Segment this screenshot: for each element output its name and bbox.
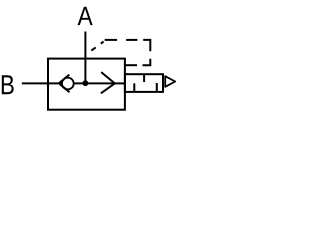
pilot dashed diagonal dash 2 (101, 42, 104, 44)
port label B (2, 75, 14, 94)
wire: arrow apex to box right edge (115, 82, 125, 84)
check valve V seat (59, 75, 70, 93)
valve body box (48, 59, 125, 110)
silencer body (125, 74, 163, 92)
pilot dashed top dash 2 (126, 39, 137, 41)
silencer baffle 2 (143, 74, 145, 82)
pilot dashed top-right elbow (143, 40, 150, 51)
exhaust triangle (165, 76, 175, 87)
wire: main horizontal line B to box (22, 82, 115, 84)
junction dot (83, 80, 89, 86)
check valve ball circle (white fill masks line) (62, 78, 74, 90)
pilot dashed top dash 1 (105, 39, 117, 41)
pilot dashed bottom-right elbow (143, 59, 151, 65)
pilot dashed diagonal dash 1 (91, 47, 95, 50)
wire: port A vertical line (84, 32, 86, 84)
port label A (78, 7, 93, 25)
flow arrow (101, 72, 115, 93)
silencer baffle 3 (156, 83, 158, 92)
pilot dashed bottom dash (125, 64, 137, 66)
silencer baffle 1 (133, 83, 135, 92)
